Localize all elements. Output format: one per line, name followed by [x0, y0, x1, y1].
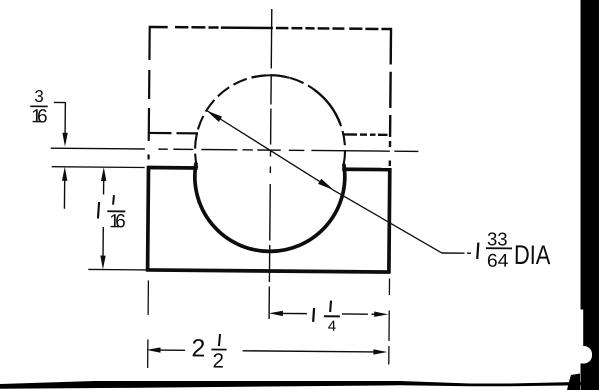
diameter leader line — [205, 110, 443, 253]
dim 2 1/2 left arrow — [146, 347, 160, 353]
svg-text:64: 64 — [487, 250, 509, 271]
dim 1 1/4 right arrow — [374, 312, 388, 318]
diameter leader arrow lower-right — [318, 179, 334, 190]
horizontal centerline — [51, 148, 419, 151]
bore circle solid lower arc — [194, 163, 345, 252]
text 1 1/4 — [312, 308, 315, 322]
scan artifact: white sliver in right bar — [581, 310, 584, 347]
svg-text:33: 33 — [487, 228, 508, 249]
bore circle hidden arc long top dash — [252, 75, 290, 78]
svg-text:16: 16 — [31, 106, 48, 127]
extension line top face left — [52, 166, 145, 169]
hidden cap bottom face left segment — [149, 132, 198, 135]
svg-text:2: 2 — [212, 350, 224, 373]
diameter leader arrow upper-left — [206, 111, 222, 122]
vertical centerline — [269, 9, 272, 319]
block bottom edge — [146, 270, 390, 272]
extension line right below block — [388, 279, 390, 295]
extension line block bottom left — [88, 268, 146, 271]
dim 3/16 up arrow tail — [63, 180, 65, 208]
hidden cap right edge — [390, 28, 391, 166]
dim 3/16 down arrow — [62, 133, 68, 147]
bore circle hidden upper arc — [195, 75, 346, 170]
block left edge — [146, 166, 151, 271]
text 1 33/64 DIA — [477, 243, 478, 260]
scan artifact: bottom black band — [0, 381, 599, 389]
diameter leader horizontal tail — [442, 252, 464, 254]
text 3/16 — [31, 87, 48, 128]
dim 3/16 up arrow — [62, 167, 68, 181]
hidden cap bottom face right segment — [342, 133, 387, 136]
text 2 1/2 — [191, 334, 224, 372]
text 1 1/16 numerator one — [112, 195, 115, 205]
dim 2 1/2 right arrow — [373, 349, 387, 355]
dim 1 1/4 line right — [342, 313, 368, 315]
dim 3/16 leader connector — [53, 102, 65, 134]
dim 1 1/4 line left — [282, 312, 307, 314]
dim 2 1/2 line right — [243, 351, 375, 352]
text 3/16 fraction bar — [30, 105, 47, 107]
hidden cap left edge — [149, 26, 150, 160]
dim 1 1/4 left arrow — [269, 311, 283, 317]
dim 1 1/16 bottom arrow — [100, 256, 106, 270]
svg-text:DIA: DIA — [514, 240, 551, 270]
text 1 1/16 whole one — [98, 202, 99, 219]
svg-text:4: 4 — [328, 318, 336, 335]
scan artifact: right black bar — [581, 0, 599, 390]
text 1 1/16 fraction bar — [107, 210, 125, 212]
block top face left — [147, 166, 198, 170]
extension line left below block — [147, 280, 149, 314]
block top face right — [342, 167, 391, 171]
dim 1 1/16 top arrow — [101, 167, 107, 181]
scan artifact: white thumb notch in right bar — [572, 346, 592, 364]
svg-text:2: 2 — [191, 334, 205, 362]
block right edge — [387, 168, 392, 273]
scan artifact: corner black blob — [567, 374, 580, 390]
svg-text:16: 16 — [109, 211, 126, 232]
hidden cap top edge — [150, 27, 392, 29]
bore circle hidden arc long right dash — [314, 90, 341, 124]
svg-text:3: 3 — [34, 87, 44, 106]
